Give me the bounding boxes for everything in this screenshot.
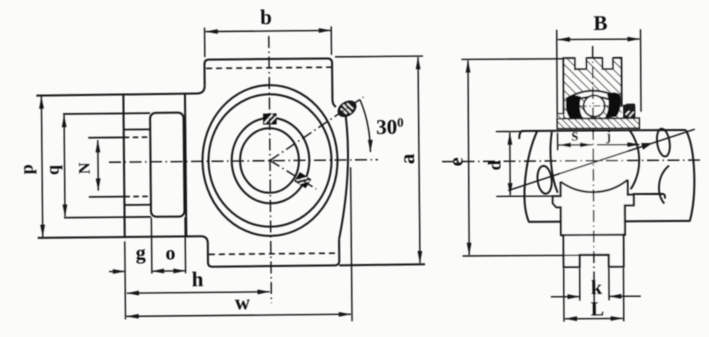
svg-text:h: h (192, 267, 204, 291)
svg-text:b: b (260, 5, 272, 29)
svg-text:a: a (395, 153, 419, 164)
svg-text:L: L (591, 298, 604, 320)
svg-text:j: j (605, 128, 611, 144)
svg-text:e: e (445, 157, 467, 166)
svg-text:300: 300 (376, 115, 404, 139)
svg-text:q: q (43, 165, 63, 175)
svg-text:d: d (484, 160, 504, 170)
svg-text:N: N (77, 162, 94, 174)
svg-text:B: B (593, 11, 607, 35)
svg-text:s: s (571, 125, 578, 145)
svg-text:k: k (591, 277, 603, 299)
svg-text:g: g (136, 242, 146, 264)
svg-text:o: o (165, 242, 175, 264)
svg-text:p: p (17, 164, 37, 174)
svg-text:w: w (235, 290, 251, 314)
